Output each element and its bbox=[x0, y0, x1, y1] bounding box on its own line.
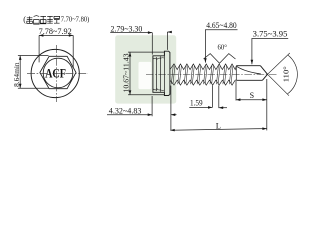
washer flange bbox=[164, 51, 170, 95]
svg-text:60°: 60° bbox=[218, 42, 228, 51]
svg-text:S: S bbox=[250, 91, 254, 100]
svg-text:1.59: 1.59 bbox=[190, 98, 203, 107]
head outline bbox=[153, 56, 165, 93]
dimension 8.64min (across corners) bbox=[12, 56, 48, 89]
thread coil loops bbox=[171, 65, 233, 84]
svg-text:L: L bbox=[216, 120, 221, 130]
drill body bottom edge bbox=[236, 79, 262, 81]
horizontal centerline bbox=[27, 73, 88, 75]
dimension 2.79~3.30 (hex height) bbox=[110, 24, 170, 54]
svg-text:2.79~3.30: 2.79~3.30 bbox=[111, 24, 143, 33]
svg-text:10.67~11.43: 10.67~11.43 bbox=[122, 53, 131, 92]
note text: (electro-plating note) bbox=[23, 15, 89, 24]
hex head side view bbox=[153, 51, 170, 95]
svg-text:110°: 110° bbox=[281, 66, 290, 82]
svg-text:4.65~4.80: 4.65~4.80 bbox=[206, 21, 237, 30]
dimension L (overall length) bbox=[170, 79, 266, 130]
facet chamfer arcs bbox=[153, 57, 157, 60]
flute curve bbox=[237, 66, 261, 74]
bottom thread crest zigzag bbox=[170, 80, 236, 85]
dimension 4.65~4.80 (thread OD leader) bbox=[205, 21, 237, 62]
point cone top face bbox=[260, 66, 267, 75]
svg-text:7.70~7.80): 7.70~7.80) bbox=[61, 16, 90, 23]
point cone bottom face bbox=[262, 74, 267, 80]
threads bbox=[170, 64, 236, 85]
hex facet line 1 bbox=[156, 57, 158, 91]
svg-text:4.32~4.83: 4.32~4.83 bbox=[109, 106, 142, 115]
dimension 3.75~3.95 (drill dia leader) bbox=[252, 29, 288, 64]
dimension 7.78~7.92 (across flats) bbox=[39, 27, 74, 68]
drill point bbox=[236, 66, 267, 81]
drill body top edge bbox=[236, 65, 260, 67]
dimension 1.59 (pitch) bbox=[189, 86, 227, 109]
svg-text:8.64min: 8.64min bbox=[12, 62, 21, 87]
110 degree point-angle annotation bbox=[268, 53, 298, 96]
watermark inner white window bbox=[139, 62, 152, 89]
svg-text:(: ( bbox=[23, 15, 26, 24]
dimension 4.32~4.83 (head height) bbox=[107, 86, 177, 131]
svg-text:7.78~7.92: 7.78~7.92 bbox=[39, 27, 72, 36]
top thread crest zigzag bbox=[170, 64, 236, 70]
vertical centerline bbox=[55, 45, 57, 102]
washer outer circle bbox=[31, 49, 79, 97]
dimension S (point length) bbox=[236, 81, 267, 101]
svg-text:3.75~3.95: 3.75~3.95 bbox=[253, 29, 288, 38]
inner chamfer circle bbox=[43, 58, 73, 88]
CJK glyphs 電鍍前對邊 (hand-drawn) bbox=[27, 16, 60, 25]
boundary thread/drill bbox=[235, 66, 237, 80]
screw axis centerline bbox=[146, 74, 278, 76]
hex facet line 2 bbox=[159, 56, 161, 91]
dimension 10.67~11.43 (washer dia) bbox=[122, 52, 165, 95]
hexagon bbox=[40, 56, 76, 88]
watermark green square bbox=[115, 35, 176, 103]
